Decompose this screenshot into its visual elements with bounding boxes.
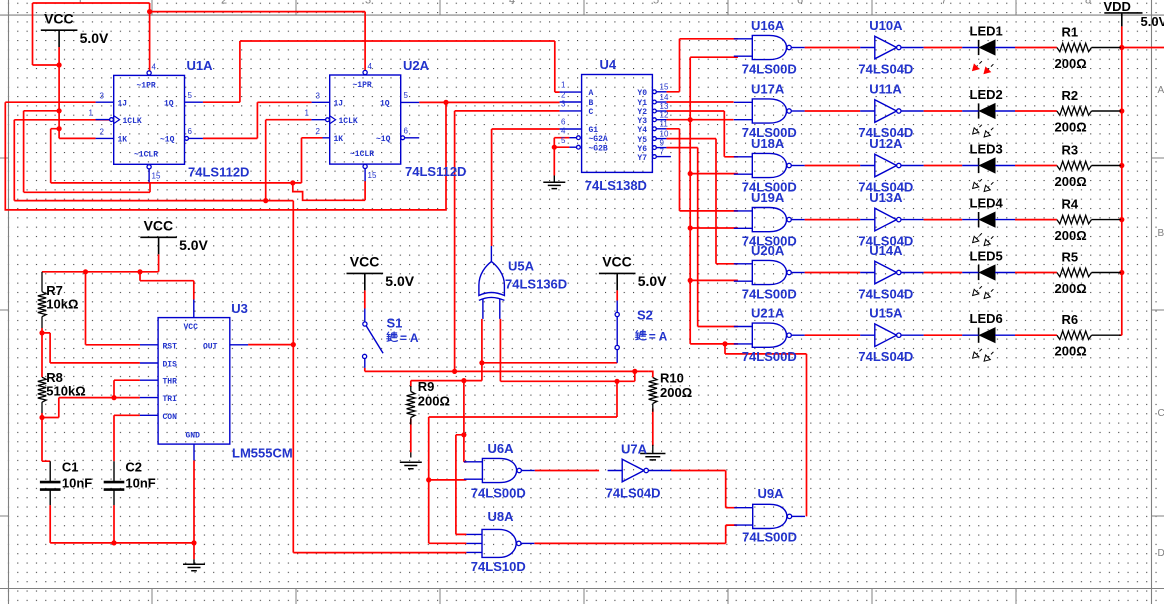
svg-text:15: 15 xyxy=(660,83,669,92)
resistor R10 200 ohm xyxy=(649,378,657,404)
junction clock xyxy=(263,198,268,203)
resistor R1 200 ohm xyxy=(1057,43,1092,51)
wire G2A G2B xyxy=(554,138,569,176)
wire Y6 to U21A xyxy=(666,148,738,327)
svg-text:R2: R2 xyxy=(1062,88,1079,103)
svg-text:1: 1 xyxy=(305,109,310,118)
resistor R2 200 ohm xyxy=(1057,107,1092,115)
svg-text:R4: R4 xyxy=(1062,197,1079,212)
svg-text:Y7: Y7 xyxy=(637,154,647,163)
svg-text:CON: CON xyxy=(163,413,178,422)
svg-text:5: 5 xyxy=(188,91,193,100)
svg-text:U9A: U9A xyxy=(758,486,785,501)
resistor R7 10k xyxy=(38,292,46,317)
svg-text:Y3: Y3 xyxy=(637,117,647,126)
svg-text:200Ω: 200Ω xyxy=(1055,344,1087,359)
svg-text:~G2B: ~G2B xyxy=(589,145,608,154)
wire VCC to U1A pin15 xyxy=(24,111,150,193)
svg-text:74LS10D: 74LS10D xyxy=(471,559,526,574)
svg-text:74LS112D: 74LS112D xyxy=(188,165,249,180)
wire to TRI xyxy=(42,398,140,418)
wire Y5 to U20A xyxy=(666,139,738,264)
svg-text:C: C xyxy=(589,108,594,117)
inverter U7A 74LS04D xyxy=(622,459,644,482)
svg-text:LED3: LED3 xyxy=(970,142,1003,157)
junction U2A 1Q xyxy=(443,100,448,105)
svg-text:9: 9 xyxy=(660,138,665,147)
wire inv2 out xyxy=(924,110,963,112)
wire common to U21A xyxy=(690,343,738,345)
svg-text:U15A: U15A xyxy=(869,306,903,321)
junction S1 branch xyxy=(632,369,637,374)
wire U8A out to U9A B xyxy=(534,525,737,543)
svg-text:D: D xyxy=(1158,548,1164,559)
svg-text:OUT: OUT xyxy=(203,342,218,351)
wire NAND3 out xyxy=(805,165,861,167)
inverter U12A 74LS04D xyxy=(875,154,897,177)
svg-text:U1A: U1A xyxy=(187,58,214,73)
svg-text:15: 15 xyxy=(368,171,377,180)
junction S2 branch xyxy=(461,378,466,383)
wire U6A out to U7A xyxy=(535,470,599,472)
wire to U6A B xyxy=(429,479,467,481)
svg-text:4: 4 xyxy=(561,127,566,136)
wire common to U20A xyxy=(690,279,738,281)
svg-text:1Q: 1Q xyxy=(380,100,390,109)
wire VCC loop top-left xyxy=(33,3,150,65)
junction S2 XOR xyxy=(479,360,484,365)
svg-text:R6: R6 xyxy=(1062,312,1079,327)
svg-text:A: A xyxy=(589,89,594,98)
junction S1 U4C xyxy=(452,369,457,374)
svg-text:Y4: Y4 xyxy=(637,126,647,135)
wire NAND2 out xyxy=(805,110,861,112)
wire to U8A pin2 xyxy=(429,542,467,544)
wire VDD rail xyxy=(1119,26,1122,335)
wire clock to U2A CLK xyxy=(266,120,312,201)
LED1 xyxy=(978,40,980,55)
svg-text:74LS00D: 74LS00D xyxy=(471,486,526,501)
svg-text:VCC: VCC xyxy=(184,323,199,332)
NAND gate U16A 74LS00D xyxy=(752,35,786,59)
wire LED2 to R2 xyxy=(1015,110,1057,112)
svg-text:2: 2 xyxy=(100,128,105,137)
svg-text:U20A: U20A xyxy=(751,243,785,258)
junction VCC line xyxy=(290,180,295,185)
NAND gate U20A 74LS00D xyxy=(752,260,786,284)
resistor R9 200 ohm xyxy=(407,392,415,418)
inverter U15A 74LS04D xyxy=(875,324,897,347)
junction common net xyxy=(688,171,693,176)
wire VCC to U2A 1K xyxy=(302,138,323,183)
svg-text:74LS04D: 74LS04D xyxy=(606,486,661,501)
svg-text:3: 3 xyxy=(316,92,321,101)
wire common vertical xyxy=(689,57,691,344)
svg-text:14: 14 xyxy=(660,93,669,102)
wire VCC2 line xyxy=(42,254,159,271)
junction THR TRI xyxy=(111,395,116,400)
svg-text:U14A: U14A xyxy=(869,243,903,258)
junction G2 xyxy=(552,145,557,150)
resistor R5 200 ohm xyxy=(1057,268,1092,276)
wire LED5 to R5 xyxy=(1015,272,1057,274)
wire XOR left to R9 xyxy=(411,319,482,381)
wire R7 to R8 xyxy=(41,328,43,377)
svg-text:1K: 1K xyxy=(334,135,344,144)
wire NAND1 out xyxy=(805,47,861,49)
svg-text:15: 15 xyxy=(152,172,161,181)
svg-text:B: B xyxy=(1158,228,1164,239)
svg-text:= A: = A xyxy=(400,331,419,345)
svg-text:U17A: U17A xyxy=(751,82,785,97)
svg-text:74LS00D: 74LS00D xyxy=(742,62,797,77)
wire clock down to U8A pin3 xyxy=(293,201,466,553)
svg-text:1J: 1J xyxy=(334,100,344,109)
wire to C1 xyxy=(42,418,50,462)
svg-text:S1: S1 xyxy=(387,316,403,331)
svg-text:2: 2 xyxy=(221,0,227,7)
svg-text:LED6: LED6 xyxy=(970,311,1003,326)
wire S1 line xyxy=(365,368,649,372)
svg-text:3: 3 xyxy=(365,0,371,7)
svg-text:U13A: U13A xyxy=(869,190,903,205)
resistor R3 200 ohm xyxy=(1057,161,1092,169)
wire to U8A pin1 xyxy=(456,435,467,535)
svg-text:G1: G1 xyxy=(589,126,599,135)
svg-text:LED2: LED2 xyxy=(970,87,1003,102)
svg-text:74LS112D: 74LS112D xyxy=(405,164,466,179)
svg-text:~1PR: ~1PR xyxy=(137,82,156,91)
wire 555 GND to ground xyxy=(193,460,195,559)
svg-text:5.0V: 5.0V xyxy=(385,273,414,289)
junction U6A B xyxy=(426,477,431,482)
LED3 xyxy=(978,158,980,173)
svg-text:VCC: VCC xyxy=(602,254,632,270)
wire common to U16A xyxy=(690,56,738,58)
svg-text:2: 2 xyxy=(316,127,321,136)
NAND gate U9A 74LS00D xyxy=(753,504,787,528)
svg-text:R10: R10 xyxy=(660,371,684,386)
wire inv4 out xyxy=(924,219,963,221)
svg-text:200Ω: 200Ω xyxy=(418,394,450,409)
wire U2A 1Q to U4 B xyxy=(419,101,559,103)
junction 555 GND xyxy=(191,540,196,545)
svg-text:2: 2 xyxy=(561,91,566,100)
wire to U1A 1J xyxy=(5,101,95,103)
NAND gate U21A 74LS00D xyxy=(752,323,786,347)
svg-text:74LS138D: 74LS138D xyxy=(585,178,647,193)
capacitor C2 10nF xyxy=(104,482,125,490)
resistor R4 200 ohm xyxy=(1057,215,1092,223)
svg-text:VCC: VCC xyxy=(144,218,174,234)
svg-text:5.0V: 5.0V xyxy=(179,237,208,253)
LED5 xyxy=(978,265,980,280)
svg-text:74LS04D: 74LS04D xyxy=(858,349,913,364)
wire VCC to U1A 1K xyxy=(59,47,96,138)
svg-text:U8A: U8A xyxy=(488,509,515,524)
svg-text:3: 3 xyxy=(100,92,105,101)
wire XOR out to U4 G1 xyxy=(492,129,560,246)
junction VCC stem 3 xyxy=(57,126,62,131)
svg-text:LM555CM: LM555CM xyxy=(232,446,293,461)
svg-text:A: A xyxy=(1158,85,1164,96)
wire VCC line xyxy=(51,129,302,183)
LED2 xyxy=(978,103,980,118)
junction C2 bottom xyxy=(111,540,116,545)
svg-text:1CLK: 1CLK xyxy=(339,117,358,126)
wire feedback loop xyxy=(5,102,446,210)
wire to DIS xyxy=(42,333,140,363)
wire common to U19A xyxy=(690,227,738,229)
wire Y1 to U17A xyxy=(666,101,733,103)
svg-text:1Q: 1Q xyxy=(164,100,174,109)
svg-text:LED5: LED5 xyxy=(970,249,1003,264)
svg-text:RST: RST xyxy=(163,342,178,351)
junction R8 C1 xyxy=(39,415,44,420)
junction RST xyxy=(83,269,88,274)
svg-text:R3: R3 xyxy=(1062,143,1079,158)
svg-text:10: 10 xyxy=(660,129,669,138)
wire NAND4 out xyxy=(805,219,861,221)
svg-text:~1Q: ~1Q xyxy=(160,136,175,145)
resistor R6 200 ohm xyxy=(1057,331,1092,339)
svg-text:74LS136D: 74LS136D xyxy=(505,277,567,292)
wire VCC to U2A pin4 xyxy=(150,12,366,71)
svg-text:510kΩ: 510kΩ xyxy=(46,384,85,399)
glyph jian (key) xyxy=(636,331,637,333)
svg-text:U3: U3 xyxy=(231,301,248,316)
junction VDD rail row4 xyxy=(1119,217,1124,222)
svg-text:R1: R1 xyxy=(1062,25,1079,40)
junction VCC stem xyxy=(57,62,62,67)
svg-text:VCC: VCC xyxy=(350,254,380,270)
junction 555 VCC xyxy=(137,269,142,274)
svg-text:U10A: U10A xyxy=(869,18,903,33)
svg-text:S2: S2 xyxy=(637,308,653,323)
svg-text:3: 3 xyxy=(561,100,566,109)
LED6 xyxy=(978,328,980,343)
svg-text:U6A: U6A xyxy=(488,441,515,456)
svg-text:74LS04D: 74LS04D xyxy=(858,62,913,77)
svg-text:8: 8 xyxy=(1085,0,1091,7)
LED4 xyxy=(978,212,980,227)
svg-text:1: 1 xyxy=(89,109,94,118)
svg-text:74LS00D: 74LS00D xyxy=(742,349,797,364)
wire inv3 out xyxy=(924,165,963,167)
junction S1 branch2 xyxy=(614,379,619,384)
wire R9 top lead xyxy=(410,381,412,387)
svg-text:~1PR: ~1PR xyxy=(353,81,372,90)
svg-text:B: B xyxy=(589,99,594,108)
svg-text:LED4: LED4 xyxy=(970,196,1004,211)
wire VCC to RST xyxy=(86,272,140,345)
svg-text:10kΩ: 10kΩ xyxy=(46,297,78,312)
wire R10 top lead xyxy=(649,371,653,377)
capacitor C1 10nF xyxy=(40,482,61,490)
wire CON to C2 xyxy=(114,415,140,461)
junction VDD rail row2 xyxy=(1119,108,1124,113)
svg-text:200Ω: 200Ω xyxy=(1055,281,1087,296)
svg-text:4: 4 xyxy=(152,63,157,72)
wire Y0 to U16A xyxy=(666,39,738,92)
svg-text:5: 5 xyxy=(653,0,659,7)
NAND gate U17A 74LS00D xyxy=(752,99,786,123)
wire common to U18A xyxy=(690,173,738,175)
glyph jian (key) xyxy=(387,332,388,334)
svg-text:5: 5 xyxy=(404,91,409,100)
svg-text:U18A: U18A xyxy=(751,136,785,151)
svg-text:Y2: Y2 xyxy=(637,108,647,117)
wire NAND6 out xyxy=(805,334,861,336)
svg-text:11: 11 xyxy=(660,120,669,129)
svg-text:Y5: Y5 xyxy=(637,136,647,145)
ground R10 xyxy=(640,454,665,460)
wire VDD row1 to edge xyxy=(1121,47,1164,49)
svg-text:U11A: U11A xyxy=(869,82,902,97)
svg-text:C: C xyxy=(1158,408,1164,419)
wire VCC to U1A pin4 xyxy=(149,3,151,71)
svg-text:TRI: TRI xyxy=(163,395,178,404)
svg-text:Y1: Y1 xyxy=(637,99,647,108)
junction VDD rail row3 xyxy=(1119,163,1124,168)
inverter U10A 74LS04D xyxy=(875,36,897,59)
wire C1 bottom xyxy=(50,505,194,543)
junction VCC stem 2 xyxy=(57,108,62,113)
junction B2 xyxy=(461,432,466,437)
svg-text:5.0V: 5.0V xyxy=(638,273,667,289)
svg-text:R9: R9 xyxy=(418,379,435,394)
svg-text:4: 4 xyxy=(509,0,515,7)
svg-text:10nF: 10nF xyxy=(62,476,92,491)
junction common net xyxy=(688,117,693,122)
NAND gate U6A 74LS00D xyxy=(482,458,516,482)
wire S1 to XOR right xyxy=(500,319,634,381)
svg-text:U2A: U2A xyxy=(403,58,430,73)
svg-text:~G2A: ~G2A xyxy=(589,135,608,144)
svg-text:200Ω: 200Ω xyxy=(660,385,692,400)
svg-text:13: 13 xyxy=(660,102,669,111)
wire THR xyxy=(114,380,140,397)
svg-text:7: 7 xyxy=(941,0,947,7)
junction U21A input xyxy=(722,341,727,346)
NAND gate U19A 74LS00D xyxy=(752,208,786,232)
wire VCC to U2A pin15 xyxy=(293,181,365,200)
svg-text:Y0: Y0 xyxy=(637,89,647,98)
wire Y3 row xyxy=(666,119,733,121)
wire C2 bottom xyxy=(113,505,115,543)
junction common net xyxy=(688,278,693,283)
wire to U1A CLK xyxy=(14,119,109,121)
wire LED3 to R3 xyxy=(1015,165,1057,167)
svg-text:U19A: U19A xyxy=(751,190,785,205)
wire U9A out loop xyxy=(725,344,807,517)
svg-text:U4: U4 xyxy=(600,57,617,72)
svg-text:1: 1 xyxy=(561,81,566,90)
svg-text:1CLK: 1CLK xyxy=(123,117,142,126)
svg-text:~1CLR: ~1CLR xyxy=(134,151,158,160)
inverter U13A 74LS04D xyxy=(875,208,897,231)
svg-text:74LS04D: 74LS04D xyxy=(858,287,913,302)
wire U1A ~1Q to U2A 1J xyxy=(203,102,312,138)
svg-text:1K: 1K xyxy=(118,136,128,145)
wire clock left xyxy=(14,120,293,201)
svg-text:VCC: VCC xyxy=(44,10,74,26)
svg-text:1J: 1J xyxy=(118,100,128,109)
junction R7 R8 xyxy=(39,330,44,335)
wire U1A 1Q to U4 A xyxy=(203,41,560,102)
junction VDD rail row1 xyxy=(1119,45,1124,50)
svg-text:~1Q: ~1Q xyxy=(376,135,391,144)
svg-text:U12A: U12A xyxy=(869,136,903,151)
svg-text:C1: C1 xyxy=(62,460,79,475)
svg-text:4: 4 xyxy=(368,62,373,71)
wire to U6A A xyxy=(464,381,467,462)
wire R9 bottom lead xyxy=(410,419,412,452)
svg-text:R5: R5 xyxy=(1062,250,1079,265)
svg-text:74LS00D: 74LS00D xyxy=(742,530,797,545)
svg-text:~1CLR: ~1CLR xyxy=(350,150,374,159)
wire VCC to 555 xyxy=(140,272,194,300)
wire U7A out to U9A A xyxy=(671,471,737,508)
NAND gate U8A 74LS10D xyxy=(482,529,516,557)
ground U4 G2 xyxy=(543,182,565,188)
svg-text:6: 6 xyxy=(188,127,193,136)
svg-text:= A: = A xyxy=(649,330,668,344)
wire LED6 to R6 xyxy=(1015,334,1057,336)
svg-text:5.0V: 5.0V xyxy=(1141,14,1164,29)
svg-text:200Ω: 200Ω xyxy=(1055,56,1087,71)
wire R10 bottom lead xyxy=(652,409,654,447)
svg-text:VDD: VDD xyxy=(1104,0,1131,14)
svg-text:Y6: Y6 xyxy=(637,145,647,154)
wire inv6 out xyxy=(924,334,963,336)
inverter U11A 74LS04D xyxy=(875,100,897,123)
svg-text:6: 6 xyxy=(404,127,409,136)
svg-text:200Ω: 200Ω xyxy=(1055,120,1087,135)
svg-text:200Ω: 200Ω xyxy=(1055,174,1087,189)
svg-text:U21A: U21A xyxy=(751,306,785,321)
svg-text:DIS: DIS xyxy=(163,361,178,370)
svg-text:THR: THR xyxy=(163,378,178,387)
wire S1 down xyxy=(429,381,617,543)
svg-text:LED1: LED1 xyxy=(970,24,1003,39)
svg-text:U7A: U7A xyxy=(621,442,648,457)
junction VCC top xyxy=(147,9,152,14)
wire LED4 to R4 xyxy=(1015,219,1057,221)
wire Y2 to U18A xyxy=(666,111,738,157)
svg-text:GND: GND xyxy=(186,432,201,441)
wire 555 OUT xyxy=(248,344,293,346)
svg-text:12: 12 xyxy=(660,111,669,120)
svg-text:74LS00D: 74LS00D xyxy=(742,287,797,302)
wire inv1 out xyxy=(924,47,963,49)
NAND gate U18A 74LS00D xyxy=(752,153,786,177)
svg-text:U5A: U5A xyxy=(508,259,535,274)
ground 555 xyxy=(183,564,205,570)
wire Y4 to U19A xyxy=(666,129,738,211)
svg-text:U16A: U16A xyxy=(751,18,785,33)
svg-text:5.0V: 5.0V xyxy=(80,30,109,46)
inverter U14A 74LS04D xyxy=(875,261,897,284)
svg-text:6: 6 xyxy=(561,118,566,127)
svg-text:10nF: 10nF xyxy=(125,476,155,491)
junction VDD rail row5 xyxy=(1119,270,1124,275)
svg-text:6: 6 xyxy=(797,0,803,7)
resistor R8 510k xyxy=(38,377,46,402)
svg-text:7: 7 xyxy=(660,147,665,156)
svg-text:C2: C2 xyxy=(125,460,142,475)
junction 555 OUT xyxy=(291,342,296,347)
